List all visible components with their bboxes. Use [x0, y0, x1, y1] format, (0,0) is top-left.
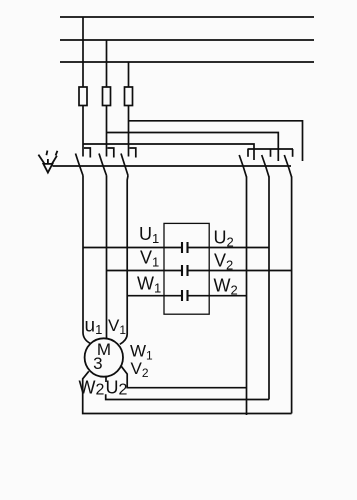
wire feeder phase2 to switch pole 5 [107, 133, 279, 162]
wire V2 line [188, 270, 292, 272]
wire U1 line [83, 247, 182, 249]
motor M1 circle [85, 338, 123, 376]
bus L2 [60, 39, 314, 41]
switch pole 4 blade [239, 155, 246, 177]
switch pole 3 fixed contact [130, 148, 136, 158]
wire motor W2 terminal to pole6 output [83, 371, 292, 413]
wire V1 line [107, 270, 183, 272]
wire L1 tap to fuse F1 [82, 17, 84, 87]
fuse F3 [125, 87, 133, 106]
capacitor C2 [182, 265, 188, 276]
capacitor C3 [182, 290, 188, 301]
svg-text:U1: U1 [139, 224, 159, 246]
wire pole2 output to motor V1 [106, 176, 108, 339]
switch pole 6 blade [284, 155, 291, 177]
svg-text:V1: V1 [140, 248, 159, 270]
wire W2 line [188, 295, 247, 297]
wire fuse F3 to switch pole 3 [128, 106, 130, 157]
switch pole 2 blade [99, 154, 107, 176]
svg-text:W2: W2 [79, 378, 105, 399]
wire pole3 output to motor W1 [126, 176, 129, 335]
switch Q1 coupling bar [53, 165, 292, 167]
wire fuse F1 to switch pole 1 [82, 106, 84, 157]
svg-text:3: 3 [93, 354, 102, 373]
capacitor box [164, 223, 209, 314]
wire pole1 output to motor u1 [82, 176, 84, 334]
switch pole 1 blade [76, 154, 84, 176]
svg-text:V1: V1 [108, 316, 126, 337]
wire motor U2 terminal stub [105, 377, 107, 382]
switch right group contact bar [248, 148, 294, 150]
capacitor C1 [182, 242, 188, 253]
wire W1 line [127, 295, 182, 297]
wire motor U2 terminal to pole5 output [106, 394, 269, 399]
wire U2 line [188, 247, 270, 249]
switch pole 5 blade [262, 155, 269, 177]
fuse F1 [79, 87, 87, 106]
wire elbow to motor terminal W1 [120, 334, 127, 344]
bus L1 [60, 16, 314, 18]
svg-text:u1: u1 [85, 316, 103, 338]
svg-text:V2: V2 [214, 251, 233, 273]
switch Q1 manual actuator symbol [38, 151, 57, 173]
wire feeder phase1 to switch pole 4 [83, 144, 254, 160]
svg-text:W2: W2 [214, 276, 238, 298]
switch pole 6 contact tick [292, 149, 294, 157]
wire feeder phase3 to switch pole 6 [129, 121, 303, 161]
switch pole 4 contact tick [247, 149, 249, 157]
wire motor V2 terminal to pole4 output [121, 365, 247, 387]
wire L3 tap to fuse F3 [128, 62, 130, 87]
svg-text:U2: U2 [106, 378, 128, 399]
wire pole4 output down right side [246, 177, 248, 416]
svg-text:U2: U2 [214, 228, 234, 250]
wire pole5 output down right side [268, 177, 270, 400]
svg-text:W1: W1 [137, 274, 161, 296]
wire pole6 output down right side [291, 177, 293, 414]
wire L2 tap to fuse F2 [106, 40, 108, 87]
fuse F2 [103, 87, 111, 106]
switch pole 5 contact tick [270, 149, 272, 157]
switch pole 2 fixed contact [108, 148, 114, 158]
bus L3 [60, 61, 314, 63]
wire fuse F2 to switch pole 2 [106, 106, 108, 157]
switch pole 3 blade [121, 154, 128, 176]
switch pole 1 fixed contact [84, 148, 90, 158]
wire elbow to motor terminal u1 [83, 333, 91, 344]
